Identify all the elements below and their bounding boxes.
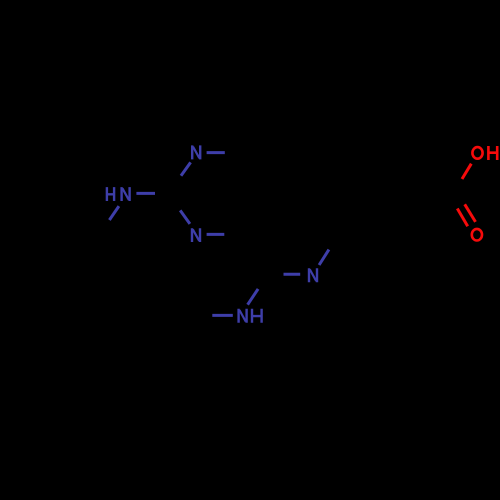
wire: bond N7-C6 (half near N7): [319, 250, 329, 265]
wire: bond N3-C2 (half near N3): [180, 210, 190, 224]
wire: double bond C=O line 2 (half near O, red): [465, 204, 476, 222]
node N3: ring nitrogen label (middle): [192, 228, 200, 242]
node O: carbonyl oxygen label of carboxylic acid: [472, 229, 482, 241]
wire: bond N7-C8 (half near N7): [284, 273, 301, 276]
node NH: amine label (bottom), letters N and H: [239, 309, 262, 323]
wire: bond N3-C4 (half near N3): [207, 233, 225, 236]
wire: bond NH-CH3 (half near NH): [212, 314, 233, 317]
node N7: pyridine nitrogen label (right): [309, 268, 317, 282]
node N1: ring nitrogen label (top): [192, 145, 200, 159]
wire: bond N1-C2 (half near N1): [181, 162, 191, 175]
node OH: hydroxyl label of carboxylic acid, letters O and H: [472, 146, 497, 160]
wire: bond N1-C8a (half near N1): [207, 151, 225, 154]
wire: bond C-OH (half near OH, red): [462, 164, 471, 179]
wire: double bond C=O line 1 (half near O, red): [457, 209, 467, 227]
wire: bond HN-C2 (half near HN): [136, 192, 155, 195]
wire: bond HN-cyclohexyl (half near HN): [109, 206, 119, 220]
node HN: amine label (left), letters H and N: [107, 187, 130, 201]
wire: bond NH-C8 (half near NH): [248, 289, 259, 305]
